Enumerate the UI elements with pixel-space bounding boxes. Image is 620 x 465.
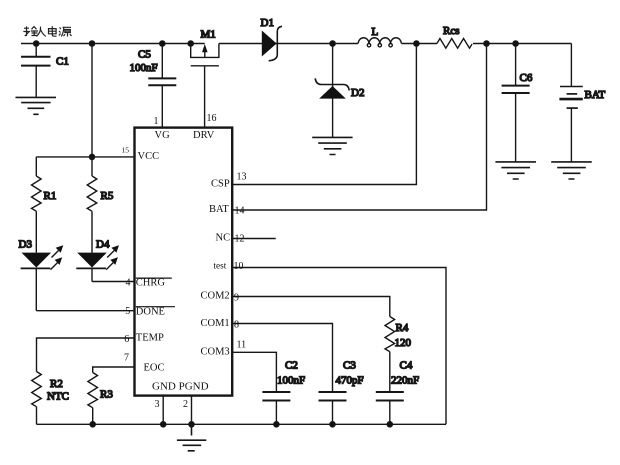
wire: test line pin10 (232, 268, 446, 425)
node: junction dot on VCC line (89, 154, 94, 159)
svg-text:C1: C1 (56, 56, 69, 68)
svg-text:BAT: BAT (209, 204, 229, 215)
wire: DONE pin line (from D3) (36, 310, 134, 312)
battery BAT (559, 44, 605, 162)
svg-text:R4: R4 (396, 322, 409, 334)
char 源 (59, 27, 72, 36)
svg-text:16: 16 (207, 113, 217, 124)
wire: VCC pin line (36, 156, 134, 158)
wire: TEMP pin line to R2 (37, 338, 135, 372)
svg-text:D3: D3 (19, 238, 33, 250)
svg-text:470pF: 470pF (336, 375, 364, 387)
wire: COM2 line pin9 to R4 (232, 297, 390, 317)
svg-text:120: 120 (395, 337, 412, 349)
capacitor C5 (130, 44, 177, 128)
svg-text:DRV: DRV (193, 130, 215, 141)
node: junction dot C6 (513, 41, 518, 46)
node: junction dot VCC column (89, 41, 94, 46)
node: dot C3 (330, 422, 335, 427)
svg-text:DONE: DONE (136, 306, 165, 317)
wire: COM1 line pin8 to C3 (232, 324, 332, 392)
svg-text:6: 6 (124, 334, 129, 345)
wire: COM3 line pin11 to C2 (232, 352, 276, 392)
resistor R2 NTC (32, 372, 69, 425)
svg-text:5: 5 (125, 306, 130, 317)
wire: pin2 stub (191, 396, 193, 425)
svg-text:4: 4 (126, 277, 131, 288)
transistor M1 (PMOS) (191, 29, 219, 128)
capacitor C4 (376, 360, 419, 425)
wire: pin3 stub (162, 396, 164, 425)
svg-text:TEMP: TEMP (136, 332, 164, 343)
svg-text:COM2: COM2 (201, 291, 230, 302)
node: dot C2 (274, 422, 279, 427)
svg-text:test: test (214, 261, 227, 271)
svg-text:15: 15 (122, 145, 130, 154)
svg-text:3: 3 (155, 399, 160, 410)
svg-text:NC: NC (216, 233, 231, 244)
svg-text:COM3: COM3 (201, 346, 230, 357)
node: junction dot CSP sense (414, 41, 419, 46)
svg-text:100nF: 100nF (277, 375, 305, 387)
LED D4 (76, 238, 119, 281)
wire: top input rail (21, 43, 571, 45)
svg-text:D2: D2 (351, 87, 364, 99)
LED D3 (19, 238, 64, 310)
resistor R1 (31, 157, 56, 253)
svg-text:12: 12 (235, 233, 245, 244)
svg-text:2: 2 (183, 399, 188, 410)
char 电 (49, 26, 57, 36)
svg-text:R5: R5 (101, 190, 114, 202)
svg-text:BAT: BAT (585, 89, 606, 101)
svg-text:GND PGND: GND PGND (152, 381, 209, 393)
ground (under D2) (312, 137, 352, 154)
inductor L (358, 26, 401, 47)
svg-text:VG: VG (155, 130, 171, 141)
svg-text:9: 9 (234, 292, 239, 303)
svg-text:CHRG: CHRG (136, 278, 166, 289)
svg-text:1: 1 (154, 116, 159, 127)
overline DONE (active low) (136, 306, 175, 308)
svg-text:14: 14 (235, 205, 245, 216)
ground (under BAT) (551, 162, 592, 179)
svg-text:VCC: VCC (138, 151, 160, 162)
svg-text:C6: C6 (520, 72, 533, 84)
diode D1 (zener, on rail) (261, 17, 283, 61)
resistor R4 (385, 317, 412, 392)
op-amp U1 (charger IC body) (135, 128, 233, 396)
svg-text:13: 13 (237, 171, 247, 182)
svg-text:NTC: NTC (47, 391, 69, 403)
svg-text:D4: D4 (96, 238, 110, 250)
node: junction dot C5 (160, 41, 165, 46)
capacitor C2 (262, 360, 305, 425)
wire: NC stub pin12 (232, 238, 276, 240)
resistor R5 (87, 157, 114, 253)
overline CHRG (active low) (136, 277, 172, 279)
diode D2 (zener to ground) (315, 44, 364, 138)
wire: VCC rail drop (91, 44, 93, 157)
node: junction dot BAT sense (484, 41, 489, 46)
char 输 (23, 26, 38, 36)
svg-text:EOC: EOC (144, 363, 165, 374)
wire: EOC pin line to R3 (93, 367, 135, 373)
svg-text:R1: R1 (44, 190, 57, 202)
wire: BAT line pin14 (232, 44, 486, 211)
wire: CSP line pin13 (232, 44, 416, 185)
node: dot pin3 (161, 422, 166, 427)
char 入 (37, 27, 46, 37)
svg-text:C5: C5 (138, 49, 151, 61)
resistor R3 (88, 373, 113, 425)
svg-text:8: 8 (234, 319, 239, 330)
capacitor C6 (502, 44, 533, 162)
node: dot C4 (387, 422, 392, 427)
svg-text:R2: R2 (50, 378, 63, 390)
svg-text:220nF: 220nF (391, 375, 419, 387)
IC pin numbers (122, 113, 247, 410)
svg-text:Rcs: Rcs (443, 25, 460, 37)
svg-text:10: 10 (234, 261, 244, 272)
svg-text:CSP: CSP (211, 179, 230, 190)
wire: bottom ground rail (37, 423, 447, 425)
ground (under C6) (495, 162, 536, 179)
svg-text:7: 7 (124, 352, 129, 363)
svg-text:11: 11 (237, 339, 247, 350)
wire: CHRG pin line (from D4) (92, 281, 135, 283)
node: junction dot C1 (34, 41, 39, 46)
svg-text:100nF: 100nF (130, 62, 158, 74)
svg-text:R3: R3 (100, 389, 113, 401)
resistor Rcs (437, 25, 472, 48)
svg-text:C3: C3 (343, 360, 356, 372)
node 输入电源 (input power label) (23, 26, 71, 36)
svg-text:C2: C2 (285, 360, 298, 372)
capacitor C1 (21, 44, 69, 98)
svg-text:C4: C4 (400, 360, 413, 372)
node: dot R3 (90, 422, 95, 427)
svg-text:COM1: COM1 (201, 318, 230, 329)
svg-text:L: L (372, 26, 379, 38)
ground (under C1) (16, 97, 57, 114)
ground (under IC) (177, 424, 206, 451)
svg-text:M1: M1 (201, 29, 216, 41)
svg-text:D1: D1 (261, 17, 274, 29)
capacitor C3 (319, 360, 364, 425)
node: dot pin2 (189, 422, 194, 427)
node: junction dot D2 (330, 41, 335, 46)
node: junction dot M1 source (188, 41, 193, 46)
IC pin labels (136, 130, 230, 392)
